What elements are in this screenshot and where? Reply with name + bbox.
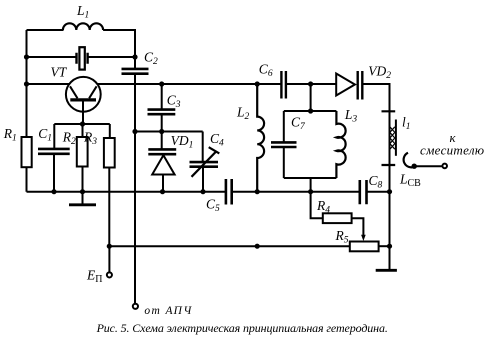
node: junction R2 bottom / ground stub [80, 189, 85, 194]
wire: VD1 bottom lead [162, 175, 164, 192]
svg-text:L2: L2 [236, 105, 250, 123]
capacitor C6 plates [281, 71, 286, 99]
node: junction VD1 bottom on ground row [160, 189, 165, 194]
varicap VD1 top lead [161, 132, 163, 150]
inductor L2 (top lead + loops + bottom lead) [257, 84, 264, 192]
svg-text:от АПЧ: от АПЧ [144, 305, 192, 317]
varicap VD1 cathode double bars [148, 149, 176, 154]
node: junction tank top feed [308, 81, 313, 86]
capacitor C2 [122, 69, 149, 74]
svg-text:смесителю: смесителю [420, 142, 484, 157]
transistor VT collector diagonal [89, 86, 97, 98]
wire: R2 bottom lead [82, 167, 84, 192]
wire: R5 right lead [379, 245, 390, 247]
wire: top wire left segment to L1 [27, 29, 64, 31]
crystal resonator ZQ plates [77, 53, 88, 64]
diode VD2 cathode double bars [358, 71, 363, 100]
svg-text:L3: L3 [344, 107, 358, 125]
wire: C7 bottom lead [283, 147, 285, 178]
svg-text:VT: VT [51, 65, 68, 80]
resistor R4 [323, 213, 352, 223]
wire: crystal row right segment to C2 column [88, 56, 135, 58]
inductor L3 (top lead + loops + bottom lead) [336, 111, 345, 178]
svg-text:R3: R3 [83, 130, 97, 148]
terminal ot APCh open circle [133, 304, 138, 309]
svg-text:VD1: VD1 [171, 133, 194, 151]
trimmer capacitor C4 arrow [192, 152, 217, 177]
node: junction L2 cold end on supply row [255, 244, 260, 249]
svg-text:Рис. 5. Схема электрическая пр: Рис. 5. Схема электрическая принципиальн… [96, 321, 388, 335]
resistor R1 [22, 137, 32, 167]
wire: C1 bottom lead [53, 154, 55, 192]
wire: varicap node row y=131.5 [135, 131, 203, 133]
wire: R4 right lead to wiper arrow [352, 218, 364, 236]
varicap VD1 triangle [152, 155, 174, 174]
wire: supply row y=246.2 [109, 245, 349, 247]
svg-text:C5: C5 [206, 196, 220, 214]
wire: C2 top lead [134, 57, 136, 68]
wire: transistor row from rail to VT emitter [27, 83, 71, 85]
diode VD2 triangle [336, 74, 355, 96]
wire: VD2 to right column corner [362, 84, 389, 269]
svg-text:C6: C6 [259, 62, 273, 80]
resistor R3 (top lead + body) [109, 124, 111, 138]
capacitor C5 plates [226, 179, 232, 205]
coil l1 winding end ticks [382, 111, 396, 165]
node: dot at Lsv arc end [412, 164, 417, 169]
svg-text:L1: L1 [76, 3, 89, 21]
terminal Ep open circle [107, 272, 112, 277]
wire: base node row y=124 [54, 123, 110, 125]
node: junction C4 bottom on ground row [200, 189, 205, 194]
capacitor C1 [38, 149, 70, 154]
wire: crystal row from rail to crystal [27, 56, 77, 58]
coupling loop Lsv arc [404, 153, 415, 168]
node: junction rail / crystal row [24, 54, 29, 59]
node: junction R5 right on right column [387, 244, 392, 249]
transistor VT emitter diagonal [70, 86, 78, 98]
svg-text:C1: C1 [38, 126, 52, 144]
node: junction R3 bottom / Ep terminal [107, 244, 112, 249]
svg-text:C8: C8 [369, 173, 383, 191]
capacitor C7 plates [271, 142, 297, 147]
ground symbol left (stub + bar) [82, 192, 84, 204]
wire: tank feed down [310, 84, 312, 111]
wire: R3 bottom lead down to supply row (crosses ground row) [108, 168, 110, 247]
node: junction C8 right on right column [387, 189, 392, 194]
coil l1 core crosshatch [390, 127, 395, 149]
coil l1 winding bar [395, 120, 397, 156]
wire: tank bottom edge [284, 177, 337, 179]
capacitor C8 plates [360, 180, 367, 204]
svg-text:LСВ: LСВ [399, 171, 421, 189]
trimmer capacitor C4 plates [190, 162, 219, 167]
node: junction C3 bottom / VD1 top [159, 129, 164, 134]
ground symbol right (bar) [376, 269, 397, 272]
capacitor C3 plates [148, 110, 176, 115]
wire: transistor row from VT to C6 [97, 83, 281, 85]
node: junction C3 top on collector row [159, 81, 164, 86]
node: junction AFC column / varicap row [132, 129, 137, 134]
svg-text:R2: R2 [62, 130, 76, 148]
transistor VT base lead down [82, 100, 84, 124]
resistor R2 (lead + body) [82, 124, 84, 137]
svg-text:ЕП: ЕП [86, 267, 102, 285]
svg-text:C2: C2 [144, 50, 158, 68]
node: junction rail / transistor row [24, 81, 29, 86]
inductor L1 [63, 23, 103, 30]
wire: Lsv to mixer terminal [414, 165, 442, 167]
crystal resonator ZQ body rectangle [79, 47, 84, 69]
svg-text:l1: l1 [402, 114, 411, 132]
node: junction L2 bottom / C5 right [255, 189, 260, 194]
terminal: to mixer open circle [442, 164, 447, 169]
wire: row from C6 to VD2 [286, 83, 336, 85]
wire: left rail x=26.5 from top wire down to R1 [26, 30, 28, 192]
node: junction tank bottom stub on ground row [308, 189, 313, 194]
node: junction crystal row / C2 top [132, 54, 137, 59]
svg-text:C4: C4 [210, 131, 224, 149]
wire: C3 bottom lead [161, 114, 163, 131]
svg-text:R1: R1 [3, 126, 17, 144]
transistor VT circle [66, 77, 101, 112]
capacitor C3 (top lead) [161, 84, 163, 110]
wire: top wire right segment from L1 to corner x=135 [103, 30, 135, 56]
wire: C2 bottom lead down to AFC terminal (crosses collector row, ground row, supply row) [134, 75, 136, 304]
node: junction tank top edge [308, 108, 313, 113]
node: junction L2 top on collector row [255, 81, 260, 86]
wire: C4 top lead from varicap row [202, 132, 204, 163]
svg-text:C7: C7 [291, 115, 306, 133]
svg-text:R4: R4 [316, 198, 330, 216]
svg-text:VD2: VD2 [368, 64, 391, 82]
wire: ground row y=191.7 middle section C5 to C8 [232, 191, 360, 193]
resistor R5 (trimmer) [350, 242, 379, 252]
node: junction C1 bottom [51, 189, 56, 194]
arrow onto R5 (wiper) [361, 235, 366, 241]
wire: tank top edge [284, 110, 337, 112]
wire: C4 bottom lead [202, 167, 204, 192]
node: junction base lead / R2 top [80, 121, 85, 126]
svg-text:C3: C3 [167, 93, 181, 111]
wire: ground row right section C8 to right column [367, 191, 390, 193]
wire: tank bottom stub to ground row and R4 branch [311, 178, 323, 218]
wire: tank left side down to C7 [283, 111, 285, 142]
wire: C1 top lead [53, 124, 55, 148]
wire: ground row y=191.7 left section [27, 191, 226, 193]
wire: Ep terminal lead [108, 246, 110, 272]
transistor VT base bar [70, 98, 96, 101]
svg-text:R5: R5 [335, 228, 349, 246]
